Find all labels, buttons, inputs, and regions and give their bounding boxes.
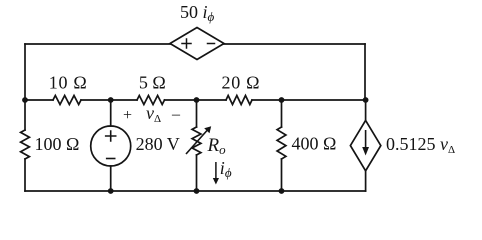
arrow of variable resistor Ro — [186, 131, 207, 155]
resistor 20ohm — [226, 96, 252, 105]
wire node C down to Ro — [196, 100, 198, 127]
node F dot (111,191) — [108, 188, 114, 194]
svg-text:–: – — [171, 106, 181, 123]
wire middle rail segment B — [81, 99, 137, 101]
wire middle rail segment A (left node to 10ohm) — [25, 99, 53, 101]
wire Ro to bottom rail — [196, 155, 198, 191]
wire 100ohm to bottom rail — [24, 159, 26, 191]
wire source V1 to bottom rail — [110, 166, 112, 191]
resistor 5ohm — [137, 96, 164, 105]
wire dependent source U2 to bottom rail — [365, 171, 367, 191]
svg-text:5 Ω: 5 Ω — [139, 73, 166, 93]
voltage source V1 280V circle — [91, 126, 131, 166]
wire top rail right segment — [224, 43, 365, 45]
svg-text:20 Ω: 20 Ω — [222, 73, 261, 93]
wire left rail to 100ohm — [24, 100, 26, 130]
resistor 400ohm (vertical) — [277, 127, 286, 159]
dependent current source U2 diamond (0.5125 v_delta) — [350, 120, 380, 170]
svg-text:280 V: 280 V — [136, 134, 180, 154]
wire bottom rail — [25, 190, 366, 192]
svg-text:10 Ω: 10 Ω — [49, 73, 88, 93]
resistor 10ohm — [53, 96, 81, 105]
resistor Ro (variable, vertical) — [192, 127, 201, 155]
node E dot (365,100) — [363, 97, 369, 103]
wire top-left: left vertical rail top segment — [24, 44, 26, 100]
arrow inside U2 (downward) — [365, 130, 367, 148]
node A dot (25,100) — [22, 97, 28, 103]
node G dot (196,191) — [194, 188, 200, 194]
wire node E down to dependent source U2 — [365, 100, 367, 120]
wire middle rail segment D — [252, 99, 365, 101]
svg-text:400 Ω: 400 Ω — [292, 134, 337, 154]
wire node D down to 400ohm — [281, 100, 283, 127]
wire node B down to source V1 — [110, 100, 112, 126]
node B dot (111,100) — [108, 97, 114, 103]
node C dot (196,100) — [194, 97, 200, 103]
svg-text:100 Ω: 100 Ω — [35, 134, 80, 154]
arrow current i_phi (down) — [215, 162, 217, 179]
wire right drop from top rail to middle rail — [364, 44, 366, 100]
resistor 100ohm (vertical) — [21, 130, 30, 159]
op-amp: none; dependent source U1 diamond (50 i_phi) — [170, 28, 224, 60]
wire middle rail segment C — [165, 99, 227, 101]
node H dot (281,191) — [279, 188, 285, 194]
wire top rail left segment — [25, 43, 170, 45]
wire 400ohm to bottom rail — [281, 159, 283, 191]
svg-text:0.5125 vΔ: 0.5125 vΔ — [386, 134, 455, 156]
svg-text:+: + — [123, 107, 132, 124]
node D dot (281,100) — [279, 97, 285, 103]
